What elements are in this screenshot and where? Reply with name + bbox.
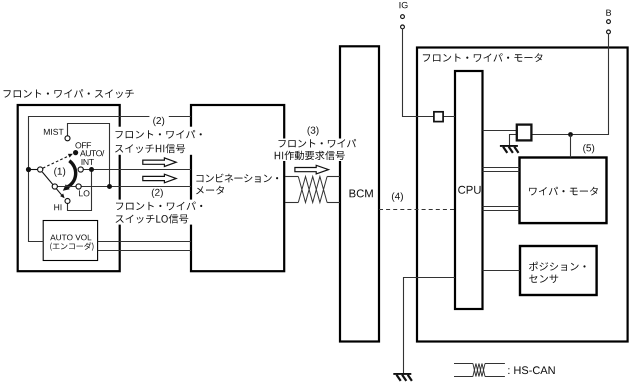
label front wiper switch (title) [4, 89, 134, 98]
label wiper motor [529, 187, 598, 196]
HS-CAN twisted pair [298, 177, 327, 203]
label front wiper switch LO signal [113, 200, 209, 225]
wire - common stub [29, 169, 38, 171]
wire - CPU to position sensor [483, 270, 521, 272]
wire - AUTO VOL to meter upper [98, 241, 191, 243]
ground at CPU [393, 373, 411, 375]
wire - switch common bus (AUTO VOL left to top-left riser to (2) line toward meter) [29, 117, 192, 242]
wire - IG to CPU [403, 29, 456, 117]
connector IG lower [401, 25, 405, 29]
contact INT [78, 167, 83, 172]
rotation arc (1) [67, 161, 76, 188]
wiper motor box [520, 158, 607, 224]
label front wiper switch HI signal [112, 127, 207, 155]
contact OFF (filled) [73, 150, 78, 155]
wire - LO row to meter [57, 186, 191, 188]
node - common junction dot on riser [26, 167, 31, 172]
front wiper switch box [18, 105, 120, 271]
wire - INT row to meter [83, 169, 191, 171]
front wiper motor box [417, 48, 628, 342]
wire - (4) dashed CAN line BCM to CPU [379, 209, 455, 211]
label (encoder) [50, 242, 93, 251]
signal arrow LO [143, 174, 176, 183]
legend twisted pair [473, 364, 485, 377]
contact MIST [65, 136, 70, 141]
ground at relay [500, 145, 518, 147]
label position sensor [529, 262, 586, 271]
wire - HI loop (HI down, right, up to INT line) [68, 170, 92, 211]
label HI [54, 204, 61, 210]
label B [606, 10, 611, 16]
wire - CPU to relay square [483, 130, 518, 132]
combination meter box [191, 105, 284, 271]
label combination meter [196, 174, 278, 183]
label MIST [44, 129, 64, 135]
wire - B rail down to wiper motor [570, 135, 572, 158]
label (2) upper [149, 115, 168, 126]
connector B lower [607, 30, 611, 34]
legend HS-CAN rails [454, 363, 473, 365]
label AUTO VOL [50, 235, 91, 241]
position sensor box [520, 246, 597, 295]
label INT [82, 159, 94, 165]
contact on throw (second pole) [52, 184, 57, 189]
connector IG upper [401, 15, 405, 19]
label (3) [308, 126, 319, 135]
CPU box [455, 71, 483, 309]
wire - solid throw toward HI [42, 172, 62, 195]
legend text HS-CAN [508, 366, 554, 374]
signal arrow HI request [295, 165, 329, 174]
label IG [400, 2, 408, 8]
label (4) [389, 191, 405, 202]
label (5) [583, 144, 594, 153]
label (2) lower [149, 188, 169, 198]
label LO [79, 190, 89, 196]
HS-CAN bus rails [285, 176, 298, 178]
label OFF [75, 142, 91, 148]
common contact (movable pole) [38, 167, 43, 172]
connector square on IG wire [434, 112, 443, 122]
wire - dashed throw to OFF [43, 156, 69, 169]
AUTO VOL encoder box [43, 221, 97, 261]
contact LO [76, 184, 81, 189]
signal arrow HI [143, 158, 176, 167]
wire - AUTO VOL to meter lower [98, 250, 191, 252]
wire - CPU to wiper motor pair 2 [483, 206, 520, 208]
BCM box [340, 46, 379, 341]
wire - B rail to relay square [532, 34, 609, 135]
wire - MIST loop (MIST up, right, down to LO line) [68, 124, 110, 187]
label front wiper motor [423, 53, 543, 62]
label front wiper HI request signal [272, 139, 360, 162]
node - junction on LO row (MIST loop) [107, 184, 112, 189]
node - junction on INT row [89, 167, 94, 172]
contact HI [65, 199, 70, 204]
node - junction on B rail [568, 132, 573, 137]
wire - CPU ground [404, 278, 456, 374]
connector B upper [607, 20, 611, 24]
relay/connector square [517, 125, 532, 141]
label CPU [458, 186, 480, 194]
wire - relay ground stub [510, 135, 518, 146]
label (1) [54, 167, 65, 176]
wire - CPU to wiper motor pair 1 [483, 167, 520, 169]
label BCM [350, 189, 373, 197]
label AUTO/ [80, 150, 104, 156]
